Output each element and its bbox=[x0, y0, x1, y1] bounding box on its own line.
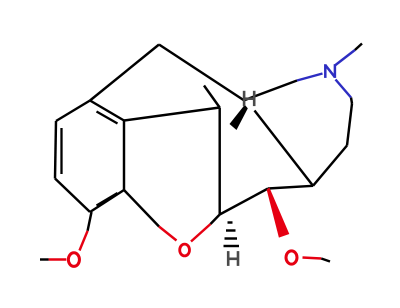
bond N to methyl (blue half) bbox=[335, 50, 355, 66]
bond C6 to C7 bbox=[268, 186, 313, 189]
bond C5 to C6 bbox=[220, 189, 268, 215]
bond C4 to furan O (red half) bbox=[159, 227, 177, 241]
benzene ring edge C1-C2 (top-left) bbox=[56, 101, 90, 122]
red solid wedge C6 to O-right bbox=[267, 188, 290, 238]
bond C4 to furan O (black half) bbox=[124, 190, 159, 227]
bond aromatic C12 to C13 (shallow) bbox=[124, 108, 220, 121]
benzene aromatic inner line (top-right) bbox=[97, 112, 118, 124]
benzene ring edge C3-bottom vertex bbox=[55, 179, 90, 213]
short bond into C13 (mystery diagonal) bbox=[204, 86, 220, 108]
bond N to C9 (black half) bbox=[244, 81, 297, 101]
atom label H top (C9 stereo H) bbox=[244, 91, 254, 106]
hashed stereo wedge C5 to bottom H bbox=[224, 223, 240, 247]
bond furan O to C5 (red half) bbox=[191, 224, 211, 242]
bond C7 to C8 bbox=[313, 146, 347, 186]
bond C8 to C17 bbox=[347, 104, 352, 146]
bond O-left to methyl (red part) bbox=[49, 258, 67, 260]
bond O-right methyl (black tip) bbox=[321, 259, 330, 262]
bond C10 apex to C9 (at top H label) bbox=[159, 45, 245, 102]
atom label N bbox=[325, 64, 335, 78]
atom label O right (methoxy) bbox=[286, 251, 297, 264]
bond C3 to O-methoxy left (red half) bbox=[80, 231, 88, 251]
bond C13 to C5 (long vertical) bbox=[218, 108, 220, 215]
benzene ring edge bottom-right bbox=[90, 190, 124, 212]
bond C17 to N (black half) bbox=[351, 98, 352, 104]
bond C9 to C7 (long right diagonal) bbox=[255, 111, 314, 186]
solid stereo wedge C9 to C14 bbox=[230, 105, 248, 130]
bond aromatic C11 to C10 apex bbox=[90, 45, 159, 101]
bond N methyl (black tip) bbox=[355, 44, 362, 51]
benzene aromatic inner line (left) bbox=[60, 128, 62, 174]
benzene ring edge C2-C3 (left vertical) bbox=[55, 121, 56, 179]
bond C3 to O-methoxy left (black half) bbox=[88, 212, 92, 231]
bond O-right to methyl (red part) bbox=[303, 258, 322, 259]
bond C17 to N (blue half) bbox=[336, 80, 352, 98]
bond N to C9 (blue half) bbox=[297, 74, 323, 81]
benzene aromatic inner line (bottom-right) bbox=[97, 193, 118, 206]
bond O-left methyl (black tip) bbox=[40, 258, 49, 260]
atom label H bottom (C5 stereo H) bbox=[228, 251, 238, 266]
benzene ring edge top-right bbox=[90, 101, 124, 121]
benzene ring edge right vertical bbox=[123, 121, 125, 191]
atom label O left (methoxy) bbox=[68, 253, 79, 267]
atom label furan O bbox=[180, 244, 190, 256]
bond furan O to C5 (black half) bbox=[211, 215, 220, 225]
